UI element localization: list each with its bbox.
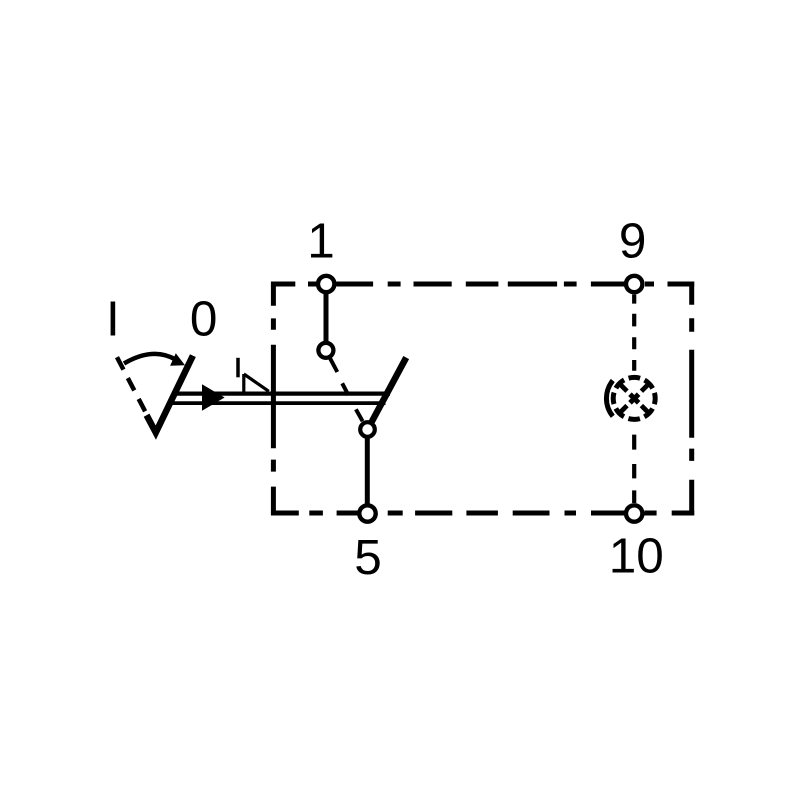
linkage bottom line	[170, 401, 386, 405]
actuator dashed position-I lever	[117, 357, 146, 413]
flag triangle	[244, 374, 269, 392]
svg-text:5: 5	[354, 530, 382, 585]
svg-text:1: 1	[307, 214, 335, 269]
svg-text:10: 10	[609, 529, 664, 584]
linkage top line	[174, 392, 390, 396]
left parenthesis arc of lamp	[606, 381, 612, 417]
dashed alternate-position contact path	[330, 358, 363, 421]
terminal 1 circle	[318, 276, 334, 292]
svg-text:I: I	[106, 291, 120, 346]
enclosure border top edge (dash-dot chain)	[271, 282, 694, 287]
dashed wire terminal 9 to lamp	[632, 295, 636, 371]
linkage arrowhead	[202, 384, 225, 410]
dashed wire lamp to terminal 10	[632, 435, 636, 503]
terminal 5 circle	[359, 505, 375, 521]
lamp spoke SW	[620, 406, 627, 413]
motion arrowhead	[170, 353, 185, 366]
enclosure border bottom edge (dash-dot chain)	[271, 511, 694, 516]
terminal 10 circle	[626, 505, 642, 521]
lamp spoke SE	[641, 406, 648, 413]
actuator lever (position 0) with foot	[147, 356, 193, 433]
flag tick	[236, 358, 240, 378]
wire terminal1 to fixed contact	[324, 292, 329, 343]
svg-text:0: 0	[190, 292, 218, 347]
motion arc arrow	[124, 354, 176, 364]
lamp centre cross	[630, 394, 639, 403]
terminal 9 circle	[626, 276, 642, 292]
lamp dashed circle	[613, 377, 655, 419]
lamp spoke NW	[620, 384, 627, 391]
switch blade (moving contact)	[372, 358, 407, 422]
svg-text:9: 9	[619, 214, 647, 269]
enclosure border right edge (dash-dot chain)	[689, 282, 694, 516]
wire pivot to terminal 5	[365, 437, 370, 506]
lamp spoke NE	[641, 384, 648, 391]
enclosure border left edge (dash-dot chain)	[271, 282, 276, 516]
fixed contact circle (node of terminal 1)	[318, 343, 333, 358]
pivot contact circle	[360, 422, 375, 437]
